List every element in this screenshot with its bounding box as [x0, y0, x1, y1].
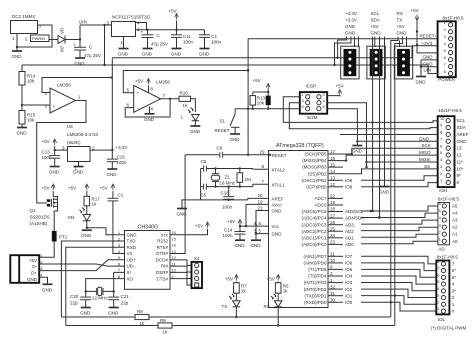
svg-text:100n: 100n	[117, 160, 128, 165]
wire AD0	[361, 241, 438, 243]
svg-text:+5V: +5V	[397, 24, 405, 29]
svg-text:32: 32	[330, 284, 336, 289]
svg-text:LM358: LM358	[156, 80, 170, 85]
wire output	[161, 98, 179, 100]
wire AVcc	[246, 204, 269, 226]
svg-text:2: 2	[323, 92, 325, 97]
svg-text:13: 13	[330, 176, 336, 181]
svg-text:GND: GND	[352, 149, 363, 154]
svg-text:+5V: +5V	[29, 258, 37, 263]
svg-text:C16: C16	[221, 191, 230, 196]
svg-text:16: 16	[330, 156, 336, 161]
wire Q1 to PT1	[54, 208, 57, 231]
wire +3.3V col1 a	[338, 37, 347, 58]
wire GND pin7	[421, 66, 438, 68]
svg-text:2: 2	[444, 27, 446, 32]
svg-text:Si2301DS: Si2301DS	[30, 215, 50, 220]
wire diode to node UIN	[65, 39, 80, 41]
diode VD2 (black)	[266, 96, 271, 106]
svg-text:+: +	[141, 30, 144, 35]
svg-text:PT1: PT1	[59, 235, 68, 240]
svg-text:1: 1	[437, 306, 439, 311]
svg-text:SCK: SCK	[422, 143, 431, 148]
svg-text:AD4/SDA: AD4/SDA	[345, 216, 364, 221]
svg-text:IO1: IO1	[345, 293, 353, 298]
wire +3.3V col1 b	[335, 37, 352, 66]
svg-text:R8: R8	[137, 309, 143, 314]
svg-text:28: 28	[330, 207, 336, 212]
wire gnd left leg	[201, 169, 248, 200]
svg-text:11: 11	[330, 252, 335, 257]
svg-text:+3V3: +3V3	[422, 41, 433, 46]
svg-text:DCD#: DCD#	[156, 257, 169, 262]
svg-text:(MOSI)/PB3: (MOSI)/PB3	[302, 165, 327, 170]
wire AD4/SDA	[361, 213, 438, 217]
svg-text:R232: R232	[157, 239, 168, 244]
svg-text:8: 8	[437, 259, 439, 264]
svg-text:RESET↑: RESET↑	[420, 34, 437, 39]
svg-text:(ADC3)/PC3: (ADC3)/PC3	[301, 222, 327, 227]
svg-text:3: 3	[440, 164, 442, 169]
svg-text:6: 6	[118, 261, 120, 266]
svg-text:47µ 25V: 47µ 25V	[151, 42, 168, 47]
connector wireless/serial 1 (4-pin)	[341, 46, 359, 79]
svg-text:5: 5	[444, 48, 446, 53]
svg-text:GND: GND	[423, 55, 434, 60]
resistor R8 1k	[135, 314, 149, 319]
ground ON led	[82, 229, 92, 231]
svg-text:AD3: AD3	[345, 222, 354, 227]
svg-text:RESET: RESET	[215, 128, 230, 133]
svg-text:7: 7	[444, 62, 446, 67]
svg-text:UIN: UIN	[424, 68, 432, 73]
svg-text:IO5: IO5	[345, 267, 353, 272]
svg-text:20: 20	[258, 193, 264, 198]
svg-text:GND: GND	[272, 232, 283, 237]
svg-text:+5V: +5V	[253, 78, 261, 83]
svg-text:A3: A3	[452, 218, 458, 223]
svg-text:GND: GND	[42, 287, 53, 292]
svg-text:1k: 1k	[183, 103, 189, 108]
diode VD M7	[58, 36, 65, 44]
svg-text:22p: 22p	[121, 300, 129, 305]
svg-text:C15: C15	[117, 155, 126, 160]
fuse PT1	[52, 231, 57, 242]
svg-text:RESET: RESET	[272, 153, 287, 158]
svg-text:D-: D-	[32, 264, 37, 269]
svg-text:R16: R16	[180, 91, 189, 96]
svg-text:S1: S1	[220, 119, 226, 124]
svg-text:6: 6	[444, 55, 446, 60]
wire RXD	[66, 247, 125, 325]
capacitor C4 100n	[204, 30, 206, 35]
svg-text:V3: V3	[127, 251, 133, 256]
svg-text:GND: GND	[345, 24, 356, 29]
wire RX led to line2	[277, 307, 279, 326]
connector DC2 power jack body	[11, 21, 38, 34]
wire GND pin21	[256, 211, 269, 234]
svg-text:8: 8	[444, 69, 446, 74]
svg-text:UD+: UD+	[127, 257, 136, 262]
svg-text:C5: C5	[201, 193, 207, 198]
svg-text:AREF: AREF	[272, 196, 284, 201]
svg-text:GND: GND	[457, 139, 468, 144]
svg-text:AD0: AD0	[345, 242, 354, 247]
svg-text:C11: C11	[183, 34, 191, 39]
svg-text:5*: 5*	[452, 275, 457, 280]
svg-text:AVcc: AVcc	[272, 202, 283, 207]
wire USB D+	[39, 260, 124, 271]
svg-text:IO8: IO8	[345, 184, 353, 189]
connector USB	[10, 255, 39, 283]
svg-text:9*: 9*	[457, 173, 462, 178]
wire X1 pin	[170, 279, 192, 285]
svg-text:3: 3	[302, 98, 304, 103]
svg-text:26: 26	[330, 220, 336, 225]
svg-text:IOL: IOL	[438, 317, 446, 322]
svg-text:+5V: +5V	[225, 277, 233, 282]
svg-text:M7: M7	[60, 45, 65, 52]
svg-text:SCL: SCL	[457, 118, 466, 123]
power flag +5V reset pullup	[253, 91, 268, 93]
svg-text:RXD: RXD	[127, 245, 137, 250]
svg-text:C6: C6	[201, 159, 207, 164]
svg-text:6: 6	[437, 273, 439, 278]
svg-text:LM6206-3.3 N3: LM6206-3.3 N3	[67, 132, 99, 137]
svg-text:+5V: +5V	[195, 224, 203, 229]
wire ICSP pin6 GND to IOH GND pin	[327, 109, 438, 142]
svg-text:+5V: +5V	[169, 9, 177, 14]
svg-text:3x2M: 3x2M	[307, 115, 318, 120]
wire XTAL1 rail	[201, 186, 204, 188]
svg-text:6: 6	[440, 143, 442, 148]
wire MISO riser	[343, 155, 438, 161]
svg-text:C21: C21	[121, 294, 130, 299]
svg-text:1: 1	[118, 230, 120, 235]
svg-text:UIN: UIN	[79, 20, 87, 25]
wire AD5/SCL	[361, 206, 438, 211]
svg-text:POWER: POWER	[438, 77, 456, 82]
svg-text:C4: C4	[211, 34, 217, 39]
capacitor C 47u 25V (output)	[147, 30, 149, 35]
svg-text:GND: GND	[144, 117, 155, 122]
svg-text:15: 15	[330, 162, 336, 167]
svg-text:10x1F-H8.5: 10x1F-H8.5	[438, 108, 462, 113]
wire IO2	[361, 289, 436, 297]
wire GND pin6	[421, 59, 438, 61]
wire RX long	[391, 37, 398, 318]
connector wireless/serial 2 (4-pin)	[367, 46, 385, 79]
ground opamp2 pin4	[149, 107, 151, 114]
svg-text:U5: U5	[67, 124, 73, 129]
wire reset row to ATmega pin29	[223, 154, 269, 156]
svg-text:6: 6	[323, 104, 325, 109]
svg-text:+5V: +5V	[42, 186, 50, 191]
svg-text:6x1F-H8.5: 6x1F-H8.5	[438, 196, 460, 201]
ground crystal section	[182, 200, 201, 208]
power flag +5V Vcc CH340	[170, 229, 208, 235]
svg-text:3: 3	[439, 222, 441, 227]
wire R16 to LED	[191, 99, 196, 112]
svg-text:(A1SHB): (A1SHB)	[30, 221, 48, 226]
wire to diode	[49, 39, 58, 41]
wire TXD	[61, 241, 124, 317]
svg-text:GND: GND	[177, 212, 188, 217]
svg-text:GND: GND	[379, 190, 390, 195]
wire X1 pin	[170, 266, 192, 272]
svg-text:CTS#: CTS#	[156, 276, 168, 281]
svg-text:(*) DIGITAL PWM: (*) DIGITAL PWM	[431, 326, 467, 331]
svg-text:IO3: IO3	[345, 280, 353, 285]
node UIN	[79, 25, 81, 40]
svg-text:D+: D+	[31, 270, 37, 275]
svg-text:GND: GND	[17, 131, 28, 136]
svg-text:(ADC4)/PC4: (ADC4)/PC4	[301, 216, 327, 221]
svg-text:6*: 6*	[452, 268, 457, 273]
wire IO0	[361, 302, 436, 311]
svg-text:(ADC1)/PC1: (ADC1)/PC1	[301, 235, 327, 240]
svg-text:GND: GND	[371, 31, 382, 36]
svg-text:1: 1	[40, 253, 42, 258]
svg-text:21: 21	[258, 206, 264, 211]
svg-text:A4: A4	[452, 211, 458, 216]
svg-text:MOSI: MOSI	[419, 157, 431, 162]
svg-text:IOH: IOH	[439, 188, 447, 193]
svg-text:1k: 1k	[92, 202, 98, 207]
svg-text:3: 3	[444, 34, 446, 39]
svg-text:CH340G: CH340G	[138, 225, 159, 231]
wire RESET row to ICSP pin5	[235, 108, 300, 110]
svg-text:5: 5	[118, 255, 120, 260]
svg-text:24: 24	[330, 233, 336, 238]
svg-text:GND: GND	[127, 232, 138, 237]
wire GND col2 long	[384, 37, 386, 187]
svg-text:GND: GND	[49, 170, 60, 175]
svg-text:1k: 1k	[283, 289, 289, 294]
svg-text:AD1: AD1	[345, 235, 354, 240]
svg-text:1: 1	[440, 178, 442, 183]
wire +3.3V rail horizontal to POWER	[112, 46, 437, 58]
svg-text:23: 23	[330, 240, 336, 245]
wire XO	[86, 279, 125, 292]
svg-text:NCP1117S150T3G: NCP1117S150T3G	[112, 15, 151, 20]
svg-text:(T0)/PD4: (T0)/PD4	[308, 274, 327, 279]
svg-text:SDA: SDA	[457, 125, 466, 130]
svg-text:+5V: +5V	[42, 139, 50, 144]
svg-text:XI: XI	[127, 270, 131, 275]
wire output to Q1 gate	[37, 101, 86, 204]
svg-text:100n: 100n	[223, 233, 234, 238]
resistor R17 1k	[84, 196, 90, 206]
svg-text:+3,3V: +3,3V	[345, 17, 357, 22]
svg-text:AD: AD	[438, 246, 445, 251]
wire IO5	[361, 269, 436, 277]
svg-text:(TXD)/PD1: (TXD)/PD1	[304, 293, 326, 298]
svg-text:(ADC2)/PC2: (ADC2)/PC2	[301, 229, 327, 234]
svg-text:2: 2	[439, 229, 441, 234]
svg-text:47µ 25V: 47µ 25V	[84, 53, 101, 58]
svg-text:1: 1	[439, 236, 441, 241]
wire pin6 feedback	[125, 99, 170, 117]
wire GND col1 c	[354, 37, 356, 48]
svg-text:1k: 1k	[163, 330, 169, 335]
svg-text:12: 12	[457, 153, 463, 158]
svg-text:RTS#: RTS#	[157, 245, 169, 250]
svg-text:+5V: +5V	[336, 84, 344, 89]
transistor Q1 Si2301DS	[51, 197, 57, 209]
connector wireless/serial 3 (4-pin)	[394, 46, 412, 79]
svg-text:5: 5	[440, 150, 442, 155]
svg-text:(INT1)/PD3: (INT1)/PD3	[304, 280, 327, 285]
svg-text:GND: GND	[73, 170, 84, 175]
wire pin5 input net	[123, 71, 248, 93]
svg-text:+5V: +5V	[267, 277, 275, 282]
svg-text:GND: GND	[171, 52, 182, 57]
svg-text:Vcc: Vcc	[160, 232, 168, 237]
svg-text:XTAL2: XTAL2	[272, 167, 286, 172]
resistor R15	[19, 111, 25, 125]
svg-text:(OSC1)/PB1: (OSC1)/PB1	[301, 178, 327, 183]
svg-text:GND: GND	[251, 243, 262, 248]
wire IO9	[361, 176, 438, 181]
wire DTR to C8	[170, 155, 185, 254]
svg-text:GND: GND	[108, 311, 119, 316]
svg-text:13: 13	[172, 249, 176, 254]
wire +5V col2	[374, 37, 376, 48]
svg-text:+5V: +5V	[227, 219, 235, 224]
svg-text:A1: A1	[452, 232, 458, 237]
svg-text:GND: GND	[230, 137, 241, 142]
svg-text:IO0: IO0	[345, 300, 353, 305]
svg-text:PWRIN: PWRIN	[32, 36, 45, 41]
svg-text:3: 3	[437, 293, 439, 298]
wire ICSP pin3 to IOH SDA pin	[289, 103, 437, 129]
wire pin3 loop	[17, 25, 52, 47]
svg-text:+: +	[53, 104, 56, 109]
svg-text:IO7: IO7	[345, 254, 353, 259]
svg-text:(ADC0)/PC0: (ADC0)/PC0	[301, 242, 327, 247]
svg-text:22: 22	[330, 194, 336, 199]
svg-text:−: −	[53, 92, 56, 97]
svg-text:A2: A2	[452, 225, 458, 230]
svg-text:TX: TX	[397, 17, 403, 22]
svg-text:16 MHz: 16 MHz	[220, 181, 236, 186]
capacitor C 47u 25V (input)	[79, 40, 81, 48]
svg-text:(T1)/PD5: (T1)/PD5	[308, 267, 327, 272]
wire AD2	[361, 227, 438, 230]
svg-text:25: 25	[330, 226, 336, 231]
svg-text:1M: 1M	[245, 177, 252, 182]
svg-text:8: 8	[440, 130, 442, 135]
svg-text:Q1: Q1	[30, 208, 37, 213]
svg-text:C8: C8	[217, 146, 223, 151]
svg-text:SS: SS	[424, 164, 430, 169]
svg-text:C13: C13	[42, 150, 51, 155]
ground POWER	[420, 60, 422, 76]
wire RESET vertical	[247, 39, 249, 155]
wire GND col3	[406, 37, 408, 48]
svg-text:+5V: +5V	[371, 24, 379, 29]
svg-text:8x1F-H8.5: 8x1F-H8.5	[437, 254, 459, 259]
ground USB	[39, 277, 47, 284]
svg-text:DSR#: DSR#	[156, 270, 169, 275]
resistor R14	[21, 65, 23, 72]
wire AREF	[248, 198, 269, 200]
svg-text:GND: GND	[272, 209, 283, 214]
svg-text:(RXD)/PD0: (RXD)/PD0	[304, 300, 327, 305]
svg-text:11*: 11*	[457, 160, 464, 165]
svg-text:MISO: MISO	[419, 150, 431, 155]
wire Vcc	[240, 225, 269, 227]
svg-text:TXD: TXD	[127, 239, 137, 244]
svg-text:1k: 1k	[241, 289, 247, 294]
wire AD1	[361, 234, 438, 237]
wire pin1	[16, 34, 18, 48]
wire ICSP pin1 to IOH SCL pin	[283, 97, 437, 123]
svg-text:29: 29	[260, 150, 266, 155]
wire SCL vertical	[372, 37, 374, 212]
wire IO6	[361, 263, 436, 271]
wire IO7	[361, 256, 436, 264]
wire +5V output rail	[136, 29, 205, 31]
wire X1 pin	[170, 260, 192, 266]
svg-text:(ICP)/PB0: (ICP)/PB0	[306, 184, 327, 189]
svg-text:2: 2	[440, 171, 442, 176]
svg-text:(SCK)/PB5: (SCK)/PB5	[304, 152, 327, 157]
svg-text:UD-: UD-	[127, 264, 135, 269]
resistor R9 1k	[158, 323, 172, 328]
svg-text:19: 19	[258, 199, 264, 204]
svg-text:+: +	[137, 91, 140, 96]
svg-text:5: 5	[302, 104, 304, 109]
svg-text:(SS)/PB2: (SS)/PB2	[308, 171, 327, 176]
svg-text:ICSP: ICSP	[306, 84, 317, 89]
svg-text:+5V: +5V	[100, 186, 108, 191]
wire crystal node	[86, 290, 97, 292]
svg-text:A0: A0	[452, 239, 458, 244]
resistor R7 1k	[234, 283, 240, 294]
svg-text:100n: 100n	[183, 40, 194, 45]
svg-text:31: 31	[330, 291, 336, 296]
svg-text:(662K): (662K)	[67, 140, 81, 145]
wire IO3	[361, 283, 436, 291]
svg-text:+3,3V: +3,3V	[345, 11, 357, 16]
svg-text:(ADC5)/PC5: (ADC5)/PC5	[301, 209, 327, 214]
svg-text:VD: VD	[60, 27, 65, 34]
wire RXD rail	[66, 325, 158, 327]
svg-text:1: 1	[302, 92, 304, 97]
wire C1 to V3	[113, 201, 125, 254]
svg-text:SDA: SDA	[371, 17, 380, 22]
wire SS riser	[343, 169, 438, 174]
svg-text:A5: A5	[452, 204, 458, 209]
wire GND col1 d	[358, 37, 360, 48]
svg-text:RX: RX	[264, 304, 270, 309]
wire AREF to IOH pin3	[340, 134, 438, 136]
svg-text:(MISO)/PB4: (MISO)/PB4	[302, 158, 327, 163]
svg-text:14: 14	[330, 169, 336, 174]
wire UIN rail	[22, 64, 428, 66]
wire XTAL2 rail	[201, 168, 204, 170]
svg-text:IO9: IO9	[345, 178, 353, 183]
wire +5V col3	[399, 41, 401, 48]
svg-text:GND: GND	[27, 277, 38, 282]
svg-text:IO6: IO6	[345, 261, 353, 266]
svg-text:C1: C1	[118, 193, 124, 198]
svg-text:5: 5	[437, 279, 439, 284]
svg-text:GND: GND	[142, 52, 153, 57]
svg-text:7: 7	[437, 266, 439, 271]
